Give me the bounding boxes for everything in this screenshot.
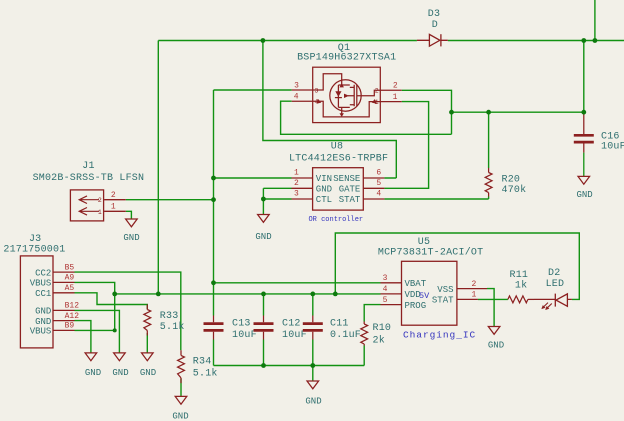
ground U5 VSS	[488, 327, 500, 335]
svg-text:BSP149H6327XTSA1: BSP149H6327XTSA1	[297, 53, 396, 64]
svg-text:1k: 1k	[515, 279, 527, 291]
wire Q1 pin1 to U8 GATE	[384, 102, 428, 189]
svg-text:4: 4	[294, 93, 299, 102]
wire C11 branch	[312, 294, 314, 381]
svg-text:OR controller: OR controller	[308, 216, 363, 224]
svg-text:GND: GND	[576, 190, 592, 200]
svg-text:GND: GND	[305, 397, 321, 407]
svg-text:GND: GND	[35, 307, 51, 317]
wire R20 top	[488, 112, 490, 168]
svg-text:470k: 470k	[502, 184, 527, 196]
svg-text:A12: A12	[65, 312, 80, 321]
capacitor C12	[254, 316, 274, 340]
svg-text:U8: U8	[331, 142, 343, 153]
wire C13 branch	[213, 283, 215, 366]
charging IC U5	[381, 261, 488, 325]
svg-text:5: 5	[376, 179, 381, 188]
svg-text:VIN: VIN	[316, 174, 332, 184]
svg-text:4: 4	[383, 285, 388, 294]
capacitor C11	[303, 316, 323, 340]
wire R20 bottom elbow	[488, 197, 490, 200]
svg-text:GND: GND	[35, 317, 51, 327]
svg-text:10uF: 10uF	[232, 330, 257, 341]
wire vertical rail to C16 row	[583, 41, 585, 115]
svg-text:MCP73831T-2ACI/OT: MCP73831T-2ACI/OT	[378, 246, 483, 258]
wire bottom rail	[214, 365, 365, 367]
svg-text:J1: J1	[82, 161, 94, 172]
svg-text:1: 1	[111, 203, 116, 212]
wire R10 bottom	[363, 346, 365, 366]
wire C16 row horizontal	[452, 111, 584, 113]
svg-text:A9: A9	[65, 274, 75, 283]
svg-text:D2: D2	[548, 268, 560, 279]
svg-text:PROG: PROG	[405, 301, 427, 311]
wire vertical from top rail down left	[157, 41, 159, 294]
svg-text:2: 2	[294, 179, 299, 188]
svg-text:5.1k: 5.1k	[160, 321, 185, 333]
svg-text:R34: R34	[193, 356, 212, 367]
resistor R10	[361, 322, 368, 346]
svg-text:3: 3	[383, 274, 388, 283]
svg-text:2: 2	[111, 191, 116, 200]
svg-text:5: 5	[383, 296, 388, 305]
svg-text:2171750001: 2171750001	[3, 245, 65, 256]
connector J3	[20, 256, 74, 348]
resistor R20	[485, 168, 492, 197]
svg-text:B12: B12	[65, 302, 80, 311]
ground R33	[142, 353, 154, 361]
ground under U8	[258, 215, 270, 223]
svg-text:A5: A5	[65, 284, 75, 293]
svg-text:1: 1	[471, 291, 476, 300]
svg-text:GND: GND	[123, 233, 139, 243]
wire Q1 pin3 net	[214, 90, 292, 283]
ground B12	[114, 353, 126, 361]
svg-text:2: 2	[393, 82, 398, 91]
svg-text:0.1uF: 0.1uF	[330, 330, 361, 341]
svg-text:GATE: GATE	[339, 184, 361, 194]
wire CC1 A5 to R33	[75, 293, 148, 310]
svg-text:R20: R20	[502, 175, 521, 186]
wire J1 pin1 to gnd	[126, 211, 132, 219]
svg-text:2: 2	[98, 197, 102, 204]
wire U5 PROG to R10	[364, 305, 380, 322]
svg-text:GND: GND	[172, 412, 188, 421]
ground A12	[85, 353, 97, 361]
svg-text:STAT: STAT	[432, 296, 454, 306]
resistor R11	[508, 296, 534, 303]
svg-text:GND: GND	[488, 341, 504, 351]
svg-text:U5: U5	[418, 237, 430, 248]
svg-text:VBUS: VBUS	[30, 279, 52, 289]
svg-text:GND: GND	[112, 368, 128, 378]
svg-text:STAT: STAT	[339, 195, 361, 205]
svg-text:2: 2	[471, 280, 476, 289]
wire top rail right segment	[448, 40, 624, 42]
connector J1	[70, 190, 125, 221]
svg-text:B9: B9	[65, 322, 75, 331]
wire GND A12 drop	[75, 321, 91, 353]
svg-text:SM02B-SRSS-TB LFSN: SM02B-SRSS-TB LFSN	[33, 173, 145, 184]
svg-text:3: 3	[315, 87, 319, 94]
svg-text:CTL: CTL	[316, 195, 332, 205]
svg-text:LTC4412ES6-TRPBF: LTC4412ES6-TRPBF	[289, 153, 388, 164]
svg-text:VBAT: VBAT	[405, 279, 427, 289]
svg-text:4: 4	[376, 190, 381, 199]
svg-text:2k: 2k	[373, 334, 385, 346]
capacitor C16	[574, 115, 594, 177]
svg-text:6: 6	[376, 169, 381, 178]
wire GND B12 drop	[75, 310, 120, 353]
svg-text:GND: GND	[85, 368, 101, 378]
ground C16	[578, 176, 590, 184]
svg-text:R10: R10	[373, 323, 392, 334]
wire R33 bottom	[146, 333, 148, 353]
wire U8 STAT to R20	[384, 198, 488, 200]
svg-text:R11: R11	[510, 270, 529, 281]
svg-text:VSS: VSS	[437, 285, 453, 295]
wire vertical rail to SENSE	[263, 41, 396, 179]
ground bottom rail	[307, 381, 319, 389]
wire Q1 pin2 to C16 row	[402, 90, 452, 134]
svg-text:10uF: 10uF	[601, 142, 624, 153]
svg-text:R33: R33	[160, 311, 179, 322]
LED D2	[534, 294, 572, 310]
resistor R33	[144, 305, 151, 336]
ground under J1	[126, 219, 138, 227]
svg-text:GND: GND	[316, 184, 332, 194]
wire vertical top edge right	[594, 0, 596, 41]
wire R34 bottom	[180, 379, 182, 397]
wire top rail left segment	[158, 40, 417, 42]
svg-text:D: D	[432, 20, 438, 31]
svg-text:Charging_IC: Charging_IC	[403, 329, 476, 340]
wire VBUS A9 drop	[75, 282, 115, 330]
svg-text:D3: D3	[428, 9, 440, 20]
svg-text:C12: C12	[282, 319, 301, 330]
wire U5 VSS to gnd	[487, 289, 494, 327]
wire VDD row	[115, 293, 381, 295]
svg-text:3: 3	[294, 81, 299, 90]
svg-text:3: 3	[294, 190, 299, 199]
svg-text:5V: 5V	[419, 291, 430, 301]
svg-text:4: 4	[315, 99, 319, 106]
svg-text:1: 1	[98, 209, 102, 216]
wire U8 GND CTL tie	[263, 188, 291, 214]
capacitor C13	[204, 316, 224, 340]
wire CC2 B5 to R34	[75, 272, 181, 350]
svg-text:1: 1	[294, 169, 299, 178]
svg-text:GND: GND	[255, 232, 271, 242]
svg-text:C11: C11	[330, 319, 349, 330]
wire U5 STAT lead	[478, 298, 508, 300]
svg-text:SENSE: SENSE	[333, 174, 360, 184]
svg-text:1: 1	[393, 93, 398, 102]
wire U8 VIN row	[214, 177, 292, 179]
op-amp U8	[292, 168, 385, 210]
svg-text:VBUS: VBUS	[30, 327, 52, 337]
svg-text:LED: LED	[546, 279, 565, 290]
svg-text:GND: GND	[140, 368, 156, 378]
svg-text:1: 1	[375, 99, 379, 106]
svg-text:CC1: CC1	[35, 289, 51, 299]
wire VBAT row	[214, 282, 381, 284]
wire Q1 pin4 tie line	[281, 101, 452, 134]
svg-text:J3: J3	[29, 234, 41, 245]
wire J1 pin2 net	[126, 199, 214, 201]
resistor R34	[178, 350, 185, 383]
transistor Q1	[292, 67, 402, 122]
svg-text:5.1k: 5.1k	[193, 368, 218, 380]
svg-text:2: 2	[375, 88, 379, 95]
ground R34	[175, 396, 187, 404]
svg-text:B5: B5	[65, 263, 75, 272]
wire VBUS B9 row	[75, 329, 115, 331]
wire D2 anode loop	[335, 233, 579, 299]
svg-text:CC2: CC2	[35, 268, 51, 278]
svg-text:C13: C13	[232, 319, 251, 330]
diode D3	[417, 34, 448, 46]
wire C12 branch	[263, 294, 265, 366]
